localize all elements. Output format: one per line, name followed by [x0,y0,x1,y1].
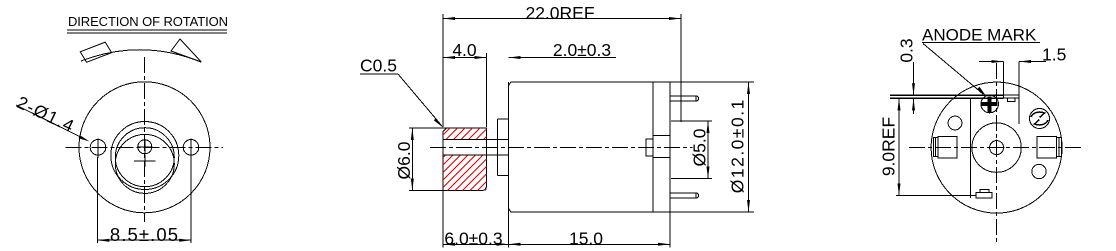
dim 8.5 extension lines [96,157,98,243]
dim dia6.0 line [411,128,413,191]
centerline [430,146,693,148]
weight circle B (outer arc) [111,122,179,190]
bottom tab [976,193,992,199]
dim 4.0 line [443,57,487,59]
svg-text:C0.5: C0.5 [360,56,397,76]
svg-text:Ø5.0: Ø5.0 [690,128,710,166]
left brush box [938,136,957,158]
can rear face [652,82,654,212]
vertical edge line [970,98,972,199]
svg-text:8.5±.05: 8.5±.05 [110,224,179,245]
terminal top [670,96,699,101]
leader to chamfer [398,74,442,126]
svg-text:0.3: 0.3 [897,38,917,62]
swirl stamp [1030,109,1050,129]
bottom ext lines [442,191,444,248]
mounting hole left [90,140,106,156]
right brush box [1037,136,1056,158]
shaft center cross [137,146,153,148]
shaft [443,139,509,141]
shaft circle [138,140,152,154]
commutator circle [972,123,1021,172]
small hole lower-right [1032,164,1046,178]
body front face [508,82,510,212]
weight circle A (front face) [115,134,174,193]
mounting hole right [183,140,199,156]
svg-text:22.0REF: 22.0REF [525,3,594,23]
vertical centerline [996,63,998,243]
dim 6.0+-0.3 line [443,243,509,245]
anode bar [1004,95,1020,98]
dim 4.0 ext line [486,53,488,127]
ANODE MARK underline [922,42,1040,44]
anode plus mark [988,97,992,113]
svg-text:4.0: 4.0 [452,40,477,60]
shaft circle [990,141,1004,155]
vertical centerline [144,57,146,222]
bar edge extension lines (0.3) [890,94,1004,96]
title double underline [67,29,227,31]
svg-text:ANODE MARK: ANODE MARK [922,26,1037,45]
svg-text:DIRECTION OF ROTATION: DIRECTION OF ROTATION [68,14,228,29]
horizontal centerline [909,147,1082,149]
end cap mid lines [653,135,670,137]
dim 22.0REF line [443,18,681,20]
weight center mark [134,160,155,162]
dim 9.0REF line [898,98,900,195]
rear bearing hub [646,139,653,156]
dim dia5.0 line [707,121,709,179]
dim 8.5 line [97,239,191,241]
dim dia12.0+-0.1 line [748,82,750,212]
svg-text:1.5: 1.5 [1042,45,1066,65]
svg-text:9.0REF: 9.0REF [879,117,899,176]
dim dia5.0 ext lines [671,120,712,122]
center cross [989,147,1005,149]
eccentric weight outline [443,128,487,191]
weight hatching [375,126,550,196]
horizontal centerline [66,146,223,148]
motor outline circle [79,82,210,213]
svg-text:Ø12.0±0.1: Ø12.0±0.1 [728,98,748,193]
rotation start rectangle [80,42,111,62]
terminal bottom [670,193,699,198]
svg-text:Ø6.0: Ø6.0 [394,141,414,179]
motor outline circle [931,82,1062,213]
dim 2.0+-0.3 line [509,57,617,59]
dim 0.3 arrows [913,62,915,95]
bottom tab ext line [896,195,976,197]
small hole upper-left [948,116,962,130]
dim 1.5 lines [979,61,1004,63]
rotation arrow triangle [171,39,201,62]
can outline top/bottom with chamfers [509,82,755,86]
dim 22.0REF ext lines [442,14,444,127]
svg-text:6.0±0.3: 6.0±0.3 [444,229,502,249]
weight circle C (middle arc) [115,128,174,187]
front bearing boss [497,119,499,176]
dim dia6.0 ext lines [409,127,447,129]
leader to left hole [16,105,87,140]
anode plus mark circle [981,95,999,113]
svg-text:15.0: 15.0 [569,229,603,249]
dim 15.0 line [509,243,671,245]
end cap rear face [669,82,671,212]
leader to plus mark [923,44,983,95]
dim 1.5 ext lines [1003,62,1005,95]
svg-text:2.0±0.3: 2.0±0.3 [553,40,611,60]
rotation direction arc [81,50,201,62]
